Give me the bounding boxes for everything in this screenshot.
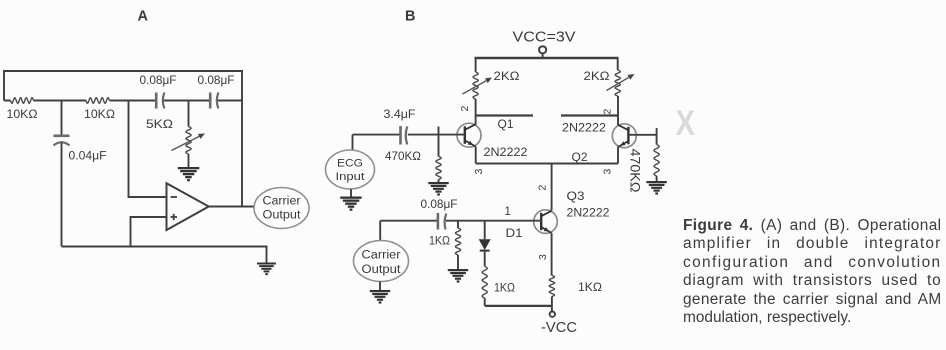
svg-text:5KΩ: 5KΩ: [146, 119, 173, 131]
svg-text:D1: D1: [506, 228, 523, 240]
svg-text:Input: Input: [336, 171, 365, 183]
svg-text:Carrier: Carrier: [263, 196, 301, 208]
svg-text:3: 3: [473, 169, 485, 175]
svg-text:1KΩ: 1KΩ: [578, 282, 602, 294]
svg-text:3: 3: [537, 254, 549, 260]
svg-text:0.04μF: 0.04μF: [69, 151, 107, 163]
svg-text:ECG: ECG: [337, 158, 363, 170]
svg-text:X: X: [676, 104, 696, 143]
svg-text:A: A: [138, 9, 149, 25]
svg-text:VCC=3V: VCC=3V: [513, 29, 576, 46]
svg-text:1KΩ: 1KΩ: [494, 283, 515, 295]
svg-text:Q3: Q3: [567, 191, 585, 203]
svg-text:2: 2: [459, 106, 471, 112]
svg-text:470KΩ: 470KΩ: [385, 151, 421, 163]
svg-text:Output: Output: [362, 264, 402, 276]
svg-text:10KΩ: 10KΩ: [7, 109, 38, 121]
svg-text:0.08μF: 0.08μF: [198, 75, 235, 87]
svg-text:1KΩ: 1KΩ: [429, 236, 450, 248]
svg-text:Q1: Q1: [498, 119, 514, 131]
svg-text:0.08μF: 0.08μF: [421, 199, 458, 211]
svg-text:2N2222: 2N2222: [484, 147, 528, 159]
svg-text:470KΩ: 470KΩ: [628, 149, 643, 193]
svg-text:1: 1: [505, 206, 511, 218]
svg-text:Q2: Q2: [572, 152, 588, 164]
svg-text:-VCC: -VCC: [541, 319, 577, 336]
svg-text:Output: Output: [263, 210, 302, 222]
svg-text:3: 3: [602, 169, 614, 175]
svg-text:2: 2: [537, 185, 549, 191]
svg-text:B: B: [405, 9, 415, 25]
svg-text:Carrier: Carrier: [362, 250, 401, 262]
svg-text:0.08μF: 0.08μF: [140, 75, 177, 87]
svg-text:2N2222: 2N2222: [562, 123, 606, 135]
svg-text:2KΩ: 2KΩ: [584, 71, 610, 83]
svg-text:2KΩ: 2KΩ: [494, 71, 520, 83]
svg-text:2: 2: [602, 109, 614, 115]
svg-text:2N2222: 2N2222: [567, 208, 610, 220]
svg-text:3.4μF: 3.4μF: [384, 109, 416, 121]
svg-text:10KΩ: 10KΩ: [84, 109, 115, 121]
